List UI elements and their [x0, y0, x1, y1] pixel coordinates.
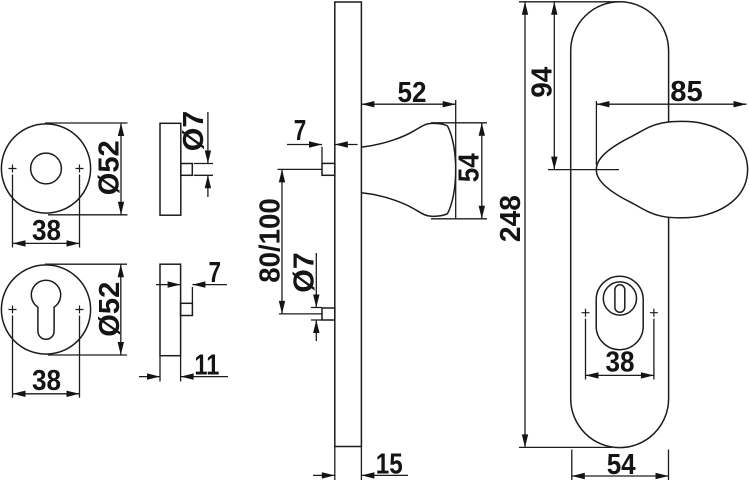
svg-text:248: 248 — [495, 195, 527, 242]
dim 85 arrows — [596, 101, 746, 107]
svg-text:38: 38 — [32, 215, 61, 247]
rose side view body (bottom) — [160, 264, 181, 356]
PZ keyhole profile — [31, 280, 60, 339]
dim O7 extension lines (plate pin) — [311, 308, 322, 321]
dim 54 line (knob side) — [481, 123, 483, 219]
backplate front view outline — [571, 2, 669, 448]
dim 248 bottom extension line — [519, 446, 612, 448]
screw mark + right — [76, 165, 84, 173]
dim 52 line — [361, 103, 455, 105]
keyway slot — [615, 285, 625, 313]
dim 80/100 arrows — [279, 169, 285, 314]
dim 7 extension line (bottom side) — [191, 287, 193, 303]
dim 52 arrows — [361, 101, 455, 107]
svg-text:11: 11 — [194, 349, 219, 381]
upper fixing pin stub — [322, 163, 335, 175]
dim 38 line (bottom rose) — [13, 393, 80, 395]
screw mark + left — [9, 165, 17, 173]
rose (blank) front view outer circle — [1, 124, 90, 213]
svg-text:54: 54 — [607, 449, 636, 480]
dim 15 arrows — [322, 472, 375, 478]
screw mark + left (plate) — [582, 309, 590, 317]
backplate side view body — [335, 2, 362, 447]
dim O52 line (bottom rose) — [120, 264, 122, 355]
dim 38 extension lines (top rose) — [13, 175, 80, 248]
knob side view profile — [361, 123, 455, 216]
dim 11 line left part — [139, 376, 160, 378]
dim O7 arrows (plate pin) — [313, 295, 319, 334]
dim 54 arrows (knob side) — [479, 123, 485, 219]
dim 38 extension lines (bottom rose) — [13, 316, 80, 398]
lower fixing pin stub — [322, 308, 335, 320]
screw mark + right (plate) — [650, 309, 658, 317]
dim 52 extension line (knob tip, shared) — [455, 100, 457, 219]
svg-text:7: 7 — [209, 257, 222, 289]
dim 38 line (plate) — [586, 374, 654, 376]
dim O52 extension lines (top rose) — [45, 123, 128, 215]
dim 7 line right part (bottom side) — [192, 284, 227, 286]
rose front view inner hole circle — [31, 153, 62, 184]
dim 7 line left part (bottom side) — [156, 284, 181, 286]
dim 11 arrows — [147, 373, 194, 379]
dim 11 extension lines — [160, 356, 181, 382]
dim 54 extension lines (knob side) — [431, 123, 487, 219]
dim 54 arrows (plate bottom) — [572, 473, 669, 479]
dim O7 arrows (rose side) — [205, 151, 211, 189]
knob axis extension line — [548, 169, 619, 171]
screw mark + right (bottom rose) — [76, 306, 84, 314]
dim 248 line — [524, 2, 526, 448]
dim O52 line (top rose) — [120, 123, 122, 215]
dim 38 extension lines (plate) — [586, 319, 654, 380]
dim O52 arrows (bottom rose) — [118, 264, 124, 355]
rose side view pin stub — [181, 164, 193, 176]
svg-text:54: 54 — [454, 153, 486, 182]
dim O52 extension lines (bottom rose) — [45, 264, 127, 355]
dim 94 line — [553, 2, 555, 170]
dim 54 line (plate bottom) — [572, 475, 669, 477]
dim O7 line upper (plate pin) — [315, 253, 317, 308]
dim 38 line (top rose) — [13, 242, 80, 244]
dim 80/100 extension lines — [278, 169, 323, 314]
dim 85 line — [596, 103, 746, 105]
dim 94 arrows — [551, 2, 557, 170]
svg-text:15: 15 — [376, 448, 403, 480]
svg-text:38: 38 — [606, 346, 635, 378]
svg-text:80/100: 80/100 — [254, 198, 286, 283]
svg-text:38: 38 — [32, 365, 61, 397]
dim 15 line right part — [361, 474, 408, 476]
svg-text:Ø52: Ø52 — [94, 282, 126, 337]
dim O52 arrows (top rose) — [118, 123, 124, 215]
dim 15 line left part — [313, 474, 335, 476]
rose (cylinder) front view outer circle — [1, 265, 90, 354]
dim 248 arrows — [522, 2, 528, 448]
dim 7 arrows (plate) — [309, 141, 348, 147]
dim 7 line left part (plate) — [287, 144, 322, 146]
dim O7 line upper (rose side) — [207, 112, 209, 164]
dim 85 extension line — [595, 101, 597, 165]
cylinder escutcheon oval — [596, 276, 643, 350]
svg-text:Ø7: Ø7 — [178, 111, 210, 152]
dim O7 line lower (rose side) — [207, 175, 209, 197]
dim 38 arrows (plate) — [586, 372, 654, 378]
svg-text:7: 7 — [294, 115, 307, 147]
svg-text:94: 94 — [527, 67, 559, 98]
svg-text:85: 85 — [670, 76, 703, 108]
dim 7 line right part (plate) — [335, 144, 358, 146]
svg-text:Ø52: Ø52 — [94, 140, 126, 195]
svg-text:52: 52 — [398, 77, 427, 109]
rose side view body — [160, 123, 181, 215]
rose side view pin stub (bottom) — [181, 303, 193, 315]
dim 38 arrows (bottom rose) — [13, 391, 80, 397]
dim O7 extension lines (rose side) — [194, 164, 213, 176]
dim 80/100 line — [281, 169, 283, 314]
dim 11 line right part — [181, 376, 228, 378]
knob front view — [596, 121, 747, 217]
dim 7 arrows (bottom side) — [168, 281, 206, 287]
dim 54 extension lines (plate bottom) — [572, 450, 669, 480]
cylinder face circle — [603, 282, 636, 315]
dim 15 extension lines — [335, 447, 362, 480]
dim 248 top extension line — [519, 1, 620, 3]
dim O7 line lower (plate pin) — [315, 320, 317, 341]
dim 7 extension line (plate) — [321, 147, 323, 164]
screw mark + left (bottom rose) — [9, 306, 17, 314]
svg-text:Ø7: Ø7 — [289, 252, 321, 293]
dim 38 arrows (top rose) — [13, 240, 80, 246]
